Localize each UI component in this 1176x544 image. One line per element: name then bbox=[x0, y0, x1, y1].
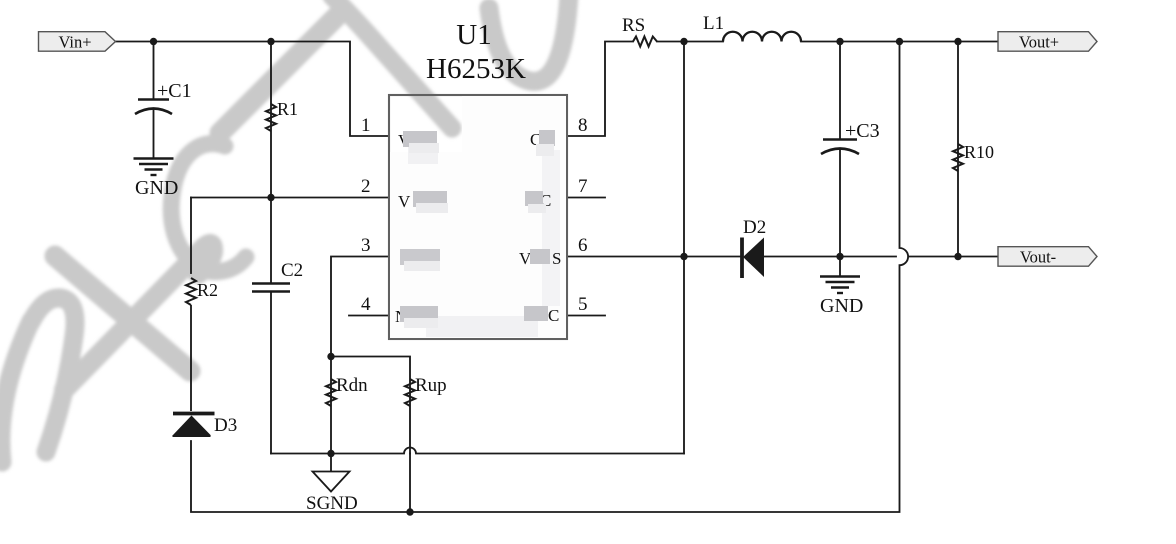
capacitor C2 bbox=[252, 284, 290, 292]
junction Rup bottom on bottom wire bbox=[406, 508, 413, 515]
junction Rdn bottom / SGND node bbox=[327, 450, 334, 457]
svg-text:GND: GND bbox=[820, 295, 863, 317]
svg-text:8: 8 bbox=[578, 115, 588, 136]
svg-text:2: 2 bbox=[361, 176, 371, 197]
redaction smudge pin 1 bbox=[403, 131, 437, 147]
wire D2 gnd stub bbox=[839, 257, 841, 277]
diode D3 bbox=[173, 414, 215, 437]
capacitor C1 bbox=[135, 100, 172, 115]
svg-text:Vout+: Vout+ bbox=[1019, 33, 1059, 52]
wire pin3 branch bbox=[331, 257, 389, 357]
ground SGND triangle bbox=[313, 472, 350, 492]
wire left branch down bbox=[190, 198, 192, 274]
wire Rup bottom bbox=[409, 454, 411, 513]
svg-text:Rup: Rup bbox=[415, 375, 447, 396]
wire pin7 stub bbox=[567, 197, 605, 199]
svg-text:R10: R10 bbox=[964, 142, 994, 162]
svg-text:U1: U1 bbox=[456, 19, 491, 51]
watermark letter p bowl bbox=[489, 0, 569, 81]
svg-text:SGND: SGND bbox=[306, 493, 358, 514]
svg-text:4: 4 bbox=[361, 294, 371, 315]
svg-text:L1: L1 bbox=[703, 13, 724, 34]
junction GND node on Vout- rail bbox=[836, 253, 843, 260]
svg-text:6: 6 bbox=[578, 235, 588, 256]
junction Rdn/Rup top node bbox=[327, 353, 334, 360]
redaction smudge pin 6 bbox=[530, 249, 550, 264]
svg-text:3: 3 bbox=[361, 235, 371, 256]
resistor R1 bbox=[266, 104, 276, 131]
redaction smudge pin 2 bbox=[413, 191, 447, 207]
junction pin6 node at x684 bbox=[680, 253, 687, 260]
svg-text:+C3: +C3 bbox=[845, 120, 880, 142]
watermark letter n bbox=[1, 321, 31, 462]
flag Vin+ bbox=[39, 32, 116, 52]
svg-text:RS: RS bbox=[622, 15, 645, 36]
wire Rdn/Rup top bbox=[331, 357, 410, 454]
flag Vout+ bbox=[998, 32, 1097, 52]
redaction smudge pin 5 bbox=[524, 306, 548, 321]
svg-text:C: C bbox=[548, 306, 559, 325]
wire pin4 stub bbox=[349, 315, 389, 317]
wire C2 top bbox=[270, 198, 272, 284]
diode D2 bbox=[742, 238, 764, 279]
watermark dash bbox=[220, 17, 336, 133]
svg-text:GND: GND bbox=[135, 177, 178, 199]
svg-text:H6253K: H6253K bbox=[426, 53, 526, 85]
svg-text:Vout-: Vout- bbox=[1020, 248, 1056, 267]
svg-text:+C1: +C1 bbox=[157, 80, 192, 102]
wire Rdn down to mid bbox=[330, 357, 332, 472]
redaction smudge pin 3 bbox=[400, 249, 440, 265]
svg-text:7: 7 bbox=[578, 176, 588, 197]
junction R10 tap on Vout+ rail bbox=[954, 38, 961, 45]
svg-text:R1: R1 bbox=[277, 99, 298, 119]
svg-text:1: 1 bbox=[361, 115, 371, 136]
wire pin6 row left bbox=[567, 256, 742, 258]
ground GND (C1) bbox=[134, 159, 174, 176]
svg-text:S: S bbox=[552, 249, 561, 268]
watermark letter c bbox=[171, 144, 246, 272]
wire R10 branch bbox=[957, 42, 959, 257]
wire C1 branch bbox=[153, 42, 155, 99]
junction C3 tap on Vout+ rail bbox=[836, 38, 843, 45]
junction RS/L1 node bbox=[680, 38, 687, 45]
resistor R10 bbox=[953, 144, 963, 171]
wire pin2 row bbox=[191, 197, 389, 199]
svg-text:C2: C2 bbox=[281, 260, 303, 281]
redaction smudge pin 7 bbox=[525, 191, 543, 206]
wire C2 bottom bbox=[270, 292, 272, 454]
watermark letter p stem bbox=[332, 0, 452, 128]
wire top main bbox=[116, 42, 390, 137]
redaction smudge pin 4 bbox=[400, 306, 438, 322]
wire mid horizontal hop over Rup bbox=[271, 448, 684, 454]
junction R10 bottom on Vout- rail bbox=[954, 253, 961, 260]
junction pin2 node bbox=[267, 194, 274, 201]
wire R1 branch bbox=[270, 42, 272, 198]
redaction smudge pin 8 bbox=[539, 130, 555, 146]
faint streaks inside IC bbox=[408, 145, 560, 337]
wire R2 bottom bbox=[190, 305, 192, 411]
junction R1 tap on Vin rail bbox=[267, 38, 274, 45]
flag Vout- bbox=[998, 247, 1097, 267]
wire l1 to vout+ bbox=[801, 41, 998, 43]
IC U1 box bbox=[389, 95, 567, 339]
IC white cover blobs bbox=[390, 96, 566, 338]
wire hop over vert at 899 (horizontal continues) bbox=[909, 256, 999, 258]
svg-text:Rdn: Rdn bbox=[336, 375, 368, 396]
resistor RS (horizontal) bbox=[633, 37, 657, 47]
wire vert x684 bbox=[683, 42, 685, 454]
svg-text:R2: R2 bbox=[197, 280, 218, 300]
wire pin8 riser bbox=[567, 42, 633, 137]
wire C3 branch bbox=[839, 42, 841, 139]
resistor R2 bbox=[186, 278, 196, 305]
svg-text:V: V bbox=[398, 192, 411, 211]
wire pin6 row right of D2 bbox=[763, 256, 896, 258]
wire pin5 stub bbox=[567, 315, 605, 317]
capacitor C3 bbox=[821, 140, 859, 155]
svg-text:D2: D2 bbox=[743, 217, 766, 238]
svg-text:Vin+: Vin+ bbox=[58, 33, 91, 52]
inductor L1 bbox=[723, 32, 801, 42]
resistor Rup bbox=[405, 379, 415, 406]
wire rs to l1 junction bbox=[657, 41, 723, 43]
svg-text:5: 5 bbox=[578, 294, 588, 315]
junction C1 tap on Vin rail bbox=[150, 38, 157, 45]
resistor Rdn bbox=[326, 379, 336, 406]
svg-text:D3: D3 bbox=[214, 415, 237, 436]
watermark letter x bbox=[64, 244, 213, 390]
ground GND (D2) bbox=[820, 277, 860, 294]
wire vert x899 with hop bbox=[191, 42, 908, 513]
junction feedback tap on Vout+ rail bbox=[896, 38, 903, 45]
